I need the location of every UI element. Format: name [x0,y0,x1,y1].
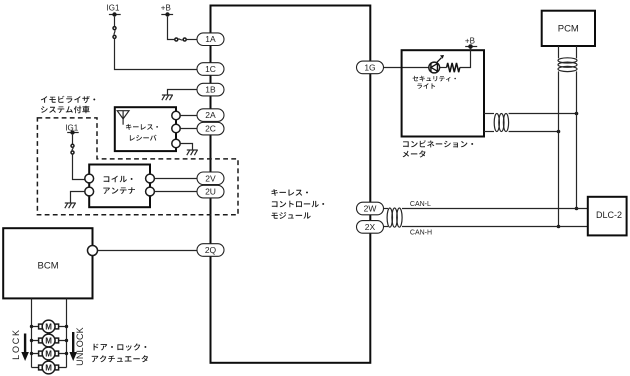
power feed IG1 (top left) [107,4,121,17]
wire meter upper to PCM right pin [509,113,577,115]
wire IG1 to switch [114,17,116,27]
ground G3 (coil antenna) [65,203,76,208]
svg-text:1C: 1C [205,64,216,74]
wire IG1 to switch [72,135,74,145]
wire LED to resistor [440,67,447,69]
wire PCM left pin [558,46,560,58]
wire pin 1B to ground [168,90,198,95]
ground G1 (pin 1B) [162,95,173,100]
twisted pair T3 (module to CAN) [387,208,402,227]
svg-text:2V: 2V [205,173,216,183]
keyless receiver box [115,107,176,151]
wire receiver to pin 2C [180,128,197,130]
svg-text:+B: +B [161,4,171,13]
svg-text:M: M [45,323,52,332]
door lock actuator label [94,343,147,350]
svg-text:M: M [45,350,52,359]
wire PCM right pin to CAN-L [576,71,578,208]
pin 2W [357,202,384,215]
wire coil to ground [71,192,85,203]
svg-text:1B: 1B [205,85,216,95]
coil antenna box [89,165,150,208]
receiver pin circle P1 [172,111,180,119]
wire receiver to pin 2A [180,115,197,117]
wire receiver to ground [180,144,192,150]
immobilizer label [41,96,96,103]
wire pin 2W stub [384,208,389,210]
svg-text:DLC-2: DLC-2 [596,210,622,220]
junction meter upper / right pin [575,112,579,116]
DLC-2 box [588,197,627,236]
keyless control module label [271,189,308,196]
svg-text:BCM: BCM [38,261,59,272]
motor M4 [39,361,59,374]
wire pin 2X stub [384,226,389,228]
wire BCM to pin 2Q [98,250,198,252]
svg-text:2A: 2A [205,110,216,120]
wire switch to coil antenna [73,154,85,180]
wire resistor to +B [460,49,471,68]
pin 1B [197,83,224,96]
junction meter lower / left pin [557,130,561,134]
svg-text:UNLOCK: UNLOCK [75,327,85,366]
pin 1C [197,63,224,76]
coil antenna label [104,176,133,183]
combination meter box [402,50,484,136]
security light LED D1 [429,55,444,73]
pin 1A [197,33,224,46]
combination meter label [413,76,456,82]
wire meter lower to PCM left pin [509,131,559,133]
receiver pin circle P3 [172,139,180,147]
wire +B to switch [168,17,175,40]
power feed IG1 (immobilizer) [65,124,78,135]
switch S3 (immobilizer IG1) [71,144,74,154]
svg-text:1A: 1A [205,34,216,44]
svg-text:CAN-H: CAN-H [410,229,432,236]
svg-text:M: M [45,337,52,346]
coil pin circle P4 [85,174,94,183]
pin 2Q [197,244,224,257]
security light label [403,140,473,147]
keyless control module U1 box [211,6,371,363]
wire PCM left pin to CAN-H [558,71,560,226]
svg-text:2U: 2U [205,187,216,197]
svg-text:LOCK: LOCK [11,328,21,360]
svg-text:2W: 2W [364,204,377,214]
wire motor row 2 [32,340,67,342]
twisted pair T1 (meter to CAN) [494,114,508,132]
receiver pin circle P2 [172,124,180,132]
switch S1 (IG1) [113,27,116,39]
power feed +B (meter) [465,36,477,49]
wire switch to pin 1A [186,39,197,41]
resistor R1 [447,63,460,72]
ground G2 (receiver) [187,150,198,155]
wire motor row 3 [32,353,67,355]
svg-text:CAN-L: CAN-L [410,201,431,208]
svg-text:M: M [45,364,52,373]
wire coil to pin 2U [154,191,197,193]
wire BCM right feed to actuators [66,298,68,367]
wire meter lower output [484,131,494,133]
keyless receiver label [126,124,158,130]
wire pin 1G to combination meter [384,67,430,69]
svg-text:IG1: IG1 [107,4,120,13]
immobilizer system dashed box [37,118,238,215]
PCM box [542,11,595,46]
motor M2 [39,334,59,347]
BCM box [3,228,92,298]
junction right pin / CAN-L [575,207,579,211]
antenna symbol [117,111,129,125]
pin 1G [357,61,384,74]
svg-text:PCM: PCM [558,24,579,35]
switch S2 (+B) [175,38,186,41]
wire CAN-H net [402,226,588,228]
LOCK arrow [21,334,29,362]
coil pin circle P6 [146,174,155,183]
wire coil to pin 2V [154,178,197,180]
wire CAN-L net [402,208,588,210]
pin 2X [357,221,384,234]
svg-text:1G: 1G [364,62,375,72]
wire PCM right pin [576,46,578,58]
pin 2A [197,109,224,122]
wire IG1 switch to pin 1C [115,38,198,69]
wire meter upper output [484,113,494,115]
junction left pin / CAN-H [557,225,561,229]
coil pin circle P7 [146,187,155,196]
svg-text:+B: +B [465,36,475,45]
motor M1 [39,320,59,333]
pin 2V [197,172,224,185]
svg-text:2X: 2X [365,222,376,232]
pin 2C [197,122,224,135]
junction dots actuator rows [30,325,68,355]
twisted pair T2 (PCM) [558,58,577,72]
power feed +B (top) [161,4,173,17]
wire motor row 4 [32,367,67,369]
wire BCM left feed to actuators [31,298,33,367]
BCM pin circle P8 [88,246,98,256]
UNLOCK arrow [69,332,77,361]
svg-text:2Q: 2Q [205,245,217,255]
coil pin circle P5 [85,187,94,196]
wire motor row 1 [32,326,67,328]
svg-text:2C: 2C [205,124,216,134]
pin 2U [197,185,224,198]
motor M3 [39,347,59,360]
